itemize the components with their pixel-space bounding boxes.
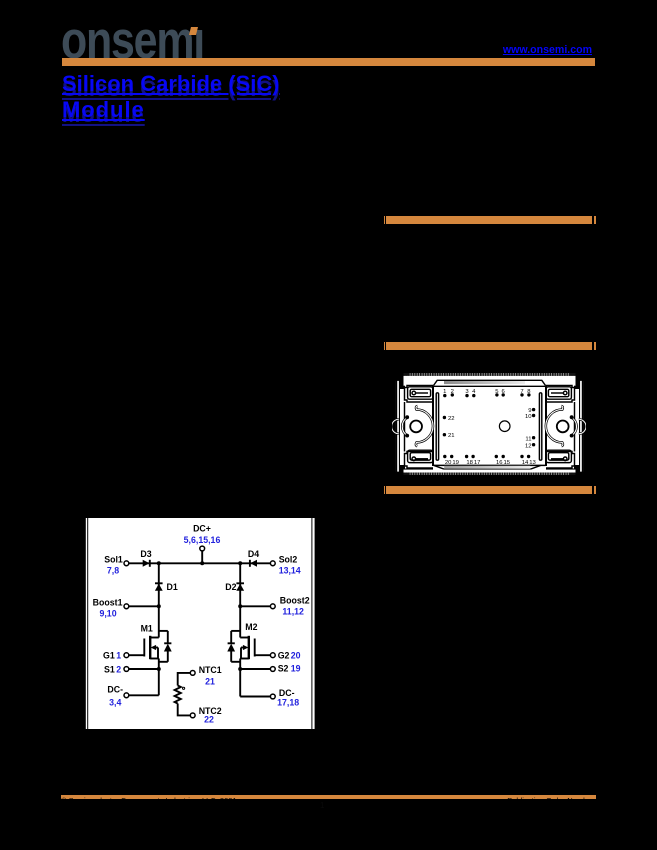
svg-text:22: 22: [204, 715, 214, 725]
svg-text:2: 2: [451, 389, 454, 395]
svg-text:G1: G1: [103, 650, 115, 660]
svg-text:3,4: 3,4: [109, 697, 121, 707]
svg-text:5,6,15,16: 5,6,15,16: [184, 535, 221, 545]
svg-text:17,18: 17,18: [277, 698, 299, 708]
svg-text:13: 13: [529, 460, 536, 466]
svg-text:18: 18: [466, 460, 473, 466]
svg-text:1: 1: [443, 389, 446, 395]
svg-text:M2: M2: [245, 622, 257, 632]
svg-text:16: 16: [496, 460, 503, 466]
svg-text:20: 20: [291, 650, 301, 660]
svg-text:12: 12: [525, 443, 532, 449]
svg-text:DC+: DC+: [193, 524, 211, 534]
svg-text:19: 19: [291, 664, 301, 674]
svg-text:DC-: DC-: [279, 688, 295, 698]
svg-text:S1: S1: [104, 664, 115, 674]
svg-text:19: 19: [452, 460, 459, 466]
svg-text:7,8: 7,8: [107, 565, 119, 575]
svg-text:S2: S2: [278, 664, 289, 674]
svg-text:Sol2: Sol2: [279, 554, 298, 564]
svg-text:13,14: 13,14: [279, 565, 301, 575]
svg-text:9,10: 9,10: [99, 609, 116, 619]
svg-text:20: 20: [445, 460, 452, 466]
svg-text:22: 22: [448, 416, 455, 422]
svg-text:15: 15: [504, 460, 511, 466]
svg-text:17: 17: [474, 460, 481, 466]
svg-text:2: 2: [116, 664, 121, 674]
svg-text:G2: G2: [278, 650, 290, 660]
svg-text:21: 21: [448, 433, 455, 439]
svg-text:10: 10: [525, 414, 532, 420]
svg-text:D1: D1: [167, 582, 178, 592]
svg-text:21: 21: [205, 677, 215, 687]
svg-text:NTC1: NTC1: [199, 665, 222, 675]
svg-text:M1: M1: [141, 623, 153, 633]
svg-text:11,12: 11,12: [282, 606, 304, 616]
svg-text:Sol1: Sol1: [104, 554, 123, 564]
svg-text:D4: D4: [248, 549, 259, 559]
svg-text:1: 1: [116, 650, 121, 660]
svg-text:7: 7: [520, 389, 523, 395]
svg-text:D2: D2: [225, 582, 236, 592]
svg-text:14: 14: [522, 460, 529, 466]
svg-text:D3: D3: [140, 549, 151, 559]
svg-text:DC-: DC-: [107, 685, 123, 695]
svg-text:Boost2: Boost2: [280, 596, 310, 606]
svg-text:Boost1: Boost1: [93, 597, 123, 607]
svg-text:11: 11: [525, 436, 531, 442]
